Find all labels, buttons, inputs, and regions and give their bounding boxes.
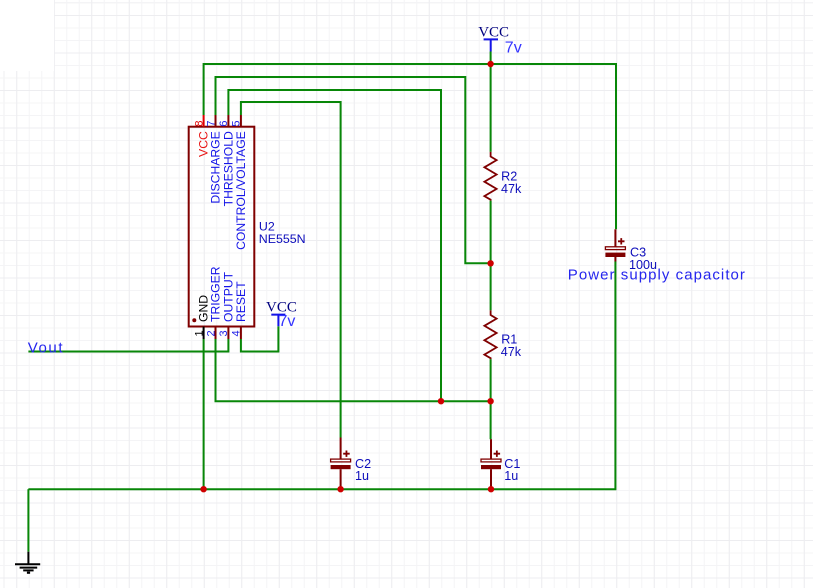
pin 3 stub — [227, 327, 229, 339]
pin 8 stub (red) — [203, 115, 205, 127]
pin 1 stub (black) — [203, 327, 205, 339]
wire R1 bottom to C1 top — [490, 359, 492, 439]
junction R1 bottom — [487, 398, 493, 404]
junction gnd pin1 — [200, 486, 206, 492]
svg-text:VCC: VCC — [478, 25, 509, 41]
junction at VCC top — [487, 61, 493, 67]
svg-text:DISCHARGE: DISCHARGE — [209, 131, 223, 203]
svg-text:6: 6 — [218, 120, 230, 126]
junction C1 gnd — [488, 486, 494, 492]
wire ground drop at left — [27, 489, 29, 552]
svg-text:1u: 1u — [355, 469, 369, 483]
wire ground bus bottom, up right side to C3 bottom — [28, 262, 615, 490]
capacitor C2 — [331, 438, 351, 489]
svg-text:4: 4 — [231, 330, 243, 336]
wire R2 bottom to R1 top — [490, 201, 492, 311]
pin 6 stub — [227, 115, 229, 127]
svg-text:NE555N: NE555N — [259, 232, 306, 246]
pin1 marker dot — [192, 318, 196, 322]
svg-text:7v: 7v — [505, 40, 522, 57]
svg-text:7v: 7v — [279, 313, 296, 330]
IC U2 NE555N body — [189, 127, 255, 327]
svg-text:2: 2 — [205, 330, 217, 336]
svg-text:47k: 47k — [501, 345, 522, 359]
svg-text:8: 8 — [193, 120, 205, 126]
wire VCC power stub (top) green part — [490, 52, 492, 65]
svg-text:CONTROL/VOLTAGE: CONTROL/VOLTAGE — [234, 131, 248, 250]
pin 5 stub — [240, 115, 242, 127]
svg-text:1u: 1u — [504, 469, 518, 483]
pin 4 stub — [240, 327, 242, 339]
pin 7 stub — [215, 115, 217, 127]
power flag VCC (top) — [484, 39, 498, 51]
pin 2 stub — [215, 327, 217, 339]
svg-text:Power supply capacitor: Power supply capacitor — [568, 267, 746, 284]
ground symbol — [15, 552, 40, 574]
capacitor C1 — [481, 439, 501, 488]
svg-text:RESET: RESET — [234, 281, 248, 322]
junction R2/R1/discharge — [487, 260, 493, 266]
wire pin1 GND down — [203, 339, 205, 489]
svg-text:5: 5 — [231, 120, 243, 126]
resistor R2 — [484, 152, 496, 201]
svg-text:47k: 47k — [501, 182, 522, 196]
capacitor C3 — [605, 229, 625, 261]
svg-text:1: 1 — [193, 330, 205, 336]
wire pin7 DISCHARGE to R1/R2 midpoint — [216, 77, 491, 263]
power flag VCC (reset pin) — [271, 315, 285, 327]
resistor R1 — [484, 310, 496, 359]
svg-text:7: 7 — [205, 120, 217, 126]
svg-text:TRIGGER: TRIGGER — [209, 266, 223, 322]
wire pin3 OUTPUT to Vout — [28, 339, 228, 352]
svg-text:Vout: Vout — [28, 339, 64, 356]
svg-text:3: 3 — [218, 330, 230, 336]
wire VCC junction down to R2 top — [490, 64, 492, 152]
wire pin4 RESET to VCC stub — [241, 326, 279, 351]
wire pin5 CONTROL to C2 top — [241, 102, 341, 438]
junction C2 gnd — [337, 486, 343, 492]
wire net VCC: pin8 up, across top, down right side to C3 top — [204, 64, 616, 229]
junction threshold/trigger — [438, 398, 444, 404]
wire pin6 THRESHOLD down to trigger net — [228, 90, 441, 401]
wire trigger net horizontal pin2 to R1/C1 — [216, 339, 491, 401]
